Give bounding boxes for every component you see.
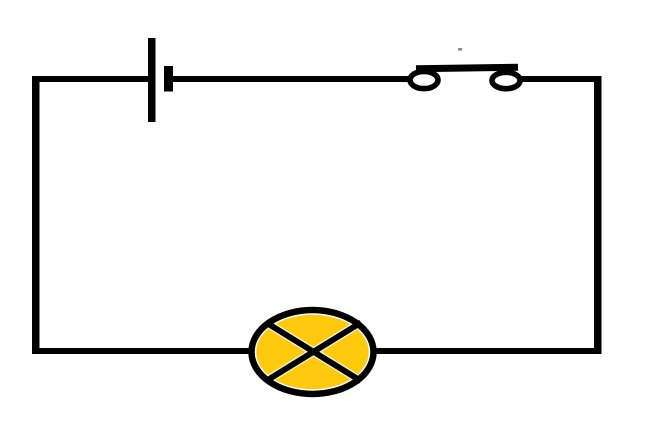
switch S1 closed blade bar bbox=[416, 67, 518, 69]
wire stub into lamp left bbox=[245, 348, 254, 354]
wire: top, left corner to battery long plate bbox=[32, 76, 148, 82]
lamp L1 outline ring bbox=[252, 310, 374, 394]
battery B1 long plate (positive) bbox=[148, 38, 156, 122]
lamp L1 yellow fill bbox=[256, 315, 369, 390]
wire: bottom, left corner to lamp bbox=[32, 348, 252, 354]
lamp L1 cross halo bbox=[266, 323, 361, 382]
wire: right vertical bbox=[594, 76, 602, 354]
wire: top, battery to switch bbox=[173, 76, 410, 82]
battery B1 short plate (negative) bbox=[164, 66, 173, 92]
wire: bottom, right corner to lamp bbox=[374, 348, 602, 354]
switch S1 left contact circle bbox=[410, 71, 438, 88]
wire: top, switch to right corner bbox=[521, 76, 602, 82]
lamp L1 cross stroke 1 bbox=[266, 323, 361, 382]
wire stub into lamp right bbox=[371, 348, 380, 354]
lamp L1 cross stroke 2 bbox=[266, 323, 361, 382]
stray mark above switch bbox=[458, 48, 462, 51]
switch S1 right contact circle bbox=[492, 72, 520, 88]
wire: left vertical bbox=[32, 76, 40, 354]
lamp L1 body halo bbox=[252, 310, 374, 394]
